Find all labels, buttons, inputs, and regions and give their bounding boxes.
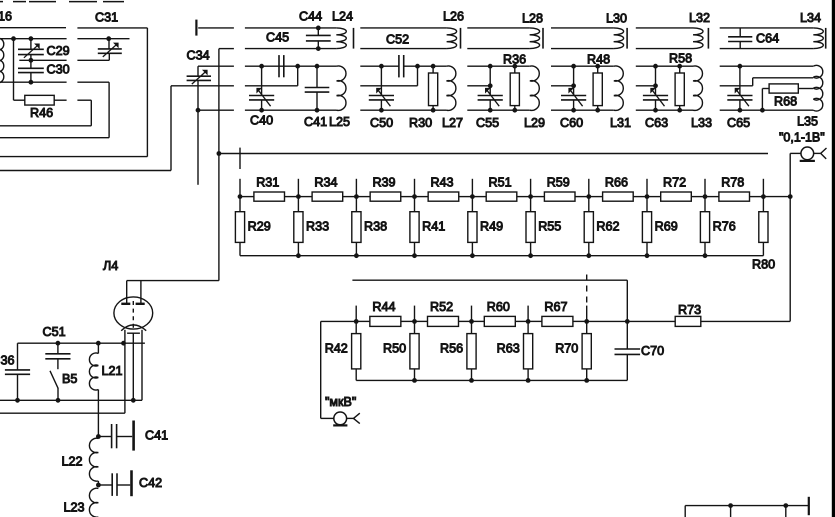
svg-text:R48: R48 (587, 52, 610, 66)
wire - T4 secondary bottom (551, 108, 614, 113)
wire - ladder2 bottom rail (356, 378, 627, 383)
svg-text:R33: R33 (306, 219, 329, 233)
svg-text:L33: L33 (691, 116, 712, 130)
wire - middle wire y60.3 (19, 58, 109, 63)
inductor L28 (522, 11, 543, 48)
wire - T5 primary loop (636, 28, 693, 49)
svg-text:R50: R50 (383, 342, 406, 356)
wire - link from ladder2 wiper line (352, 280, 627, 321)
svg-text:R42: R42 (325, 342, 348, 356)
wire - T1 secondary top y66.2 (198, 64, 337, 69)
resistor R33 (294, 197, 329, 256)
capacitor C29 (variable) (18, 39, 70, 61)
resistor R52 (415, 300, 472, 327)
svg-text:C41: C41 (304, 115, 327, 129)
svg-text:R30: R30 (409, 116, 432, 130)
tube V4 (anode top-cap) (103, 259, 141, 304)
inductor L29 (524, 66, 545, 130)
wire - R46 return loop to left edge (0, 100, 91, 126)
core bar T5 (707, 28, 709, 49)
svg-text:L32: L32 (689, 11, 710, 25)
inductor L23 (64, 488, 99, 517)
switch shaft (dashed) to ladder 2 (586, 275, 588, 306)
resistor R69 (642, 197, 677, 256)
svg-text:C31: C31 (95, 10, 118, 24)
wire - T1 secondary bottom y110.2 (198, 108, 337, 113)
wire - outer loop y27.7 left part (0, 28, 147, 157)
svg-text:R55: R55 (538, 219, 561, 233)
svg-text:L23: L23 (64, 500, 85, 514)
svg-text:В5: В5 (62, 372, 77, 386)
svg-text:R56: R56 (440, 342, 463, 356)
wire - T2 primary loop (360, 28, 446, 49)
svg-text:R46: R46 (30, 106, 53, 120)
resistor R31 (240, 175, 298, 201)
resistor R78 (705, 175, 763, 201)
svg-text:R60: R60 (487, 300, 510, 314)
resistor R68 (762, 84, 813, 110)
resistor R30 (409, 66, 438, 130)
svg-text:L31: L31 (610, 116, 631, 130)
wire - bottom right heater bus (685, 503, 809, 517)
svg-text:R62: R62 (596, 219, 619, 233)
capacitor C30 (18, 60, 70, 82)
border bar (right edge) (832, 0, 835, 517)
inductor L16 (clipped at left edge) (0, 9, 12, 83)
wire - T2 link y85.8 (360, 66, 417, 86)
wire - grid row y343.2 (18, 341, 145, 346)
wire - T6 primary loop (720, 28, 814, 49)
svg-text:36: 36 (1, 354, 15, 368)
svg-text:R41: R41 (422, 219, 445, 233)
core bar T1 (353, 28, 355, 49)
svg-text:R51: R51 (489, 175, 512, 189)
resistor R59 (531, 175, 589, 201)
svg-text:C45: C45 (266, 30, 289, 44)
core bar T2 (460, 28, 462, 49)
wire - T1 primary bottom y48.6 and long drop at x218.9 (217, 49, 337, 281)
resistor R41 (410, 197, 445, 256)
wire - top wire y38.7 of L16 block (0, 36, 130, 41)
resistor R49 (468, 197, 503, 256)
svg-text:L25: L25 (329, 115, 350, 129)
capacitor C45 (266, 30, 289, 77)
core bar T4 (626, 28, 628, 49)
resistor R48 (587, 52, 610, 110)
capacitor C60 (trimmer) (560, 66, 586, 130)
svg-text:R73: R73 (678, 303, 701, 317)
wire - T2 secondary top y66.2 (360, 64, 446, 69)
wire - T2 secondary bottom (360, 108, 446, 113)
svg-text:R36: R36 (503, 52, 526, 66)
svg-text:C55: C55 (476, 116, 499, 130)
wire - cathode row y400.3 (0, 398, 142, 403)
core bar T6 (825, 28, 827, 49)
wire - T6 secondary bottom (720, 108, 814, 113)
capacitor C55 (trimmer) (476, 66, 503, 130)
inductor L24 (332, 9, 353, 48)
svg-text:R31: R31 (256, 175, 279, 189)
wire - loop from T1 link winding to left edge (0, 86, 171, 171)
resistor R63 (497, 321, 533, 380)
inductor L30 (606, 11, 627, 48)
svg-text:C34: C34 (187, 48, 210, 62)
resistor R76 (700, 197, 735, 256)
capacitor C42 (output, lower) (96, 470, 162, 496)
svg-text:C65: C65 (727, 116, 750, 130)
resistor R58 (669, 51, 692, 110)
svg-text:L30: L30 (606, 11, 627, 25)
svg-text:C29: C29 (47, 44, 70, 58)
svg-text:"мкВ": "мкВ" (325, 395, 356, 409)
svg-text:L27: L27 (442, 116, 463, 130)
tube V4 (envelope and electrodes) (114, 297, 153, 333)
svg-text:C50: C50 (370, 116, 393, 130)
wire - T4 secondary top (551, 64, 614, 69)
terminal bar (bottom right) (808, 497, 810, 515)
svg-text:L22: L22 (62, 455, 83, 469)
resistor R80 (752, 197, 775, 272)
svg-text:R76: R76 (713, 219, 736, 233)
capacitor C40 (trimmer) (249, 66, 274, 127)
capacitor C64 (728, 28, 779, 49)
svg-text:R69: R69 (655, 219, 678, 233)
wire - ladder2 contact ticks (354, 306, 589, 324)
resistor R67 (528, 300, 587, 327)
svg-text:C30: C30 (47, 62, 70, 76)
resistor R62 (584, 197, 619, 256)
svg-text:Л4: Л4 (103, 259, 118, 273)
wire - T5 secondary top (636, 64, 693, 69)
svg-text:C64: C64 (756, 31, 779, 45)
inductor L25 (329, 66, 350, 129)
inductor L26 (443, 9, 464, 48)
svg-text:16: 16 (0, 9, 12, 23)
inductor L31 (610, 66, 631, 130)
inductor L21 (89, 343, 122, 436)
svg-text:C63: C63 (645, 116, 668, 130)
connector "uV" jack (321, 395, 360, 426)
svg-text:R38: R38 (364, 219, 387, 233)
capacitor plate terminal (gang section) (195, 20, 197, 36)
capacitor C41 (output, lower) (96, 421, 168, 451)
svg-text:C41: C41 (145, 429, 168, 443)
wire - ladder2 left drop to uV jack (321, 321, 357, 418)
wire - T1 primary top y27.9 (198, 27, 336, 29)
switch wiper arm (input to ladder 1) (239, 148, 241, 169)
capacitor C34 (variable) (187, 48, 212, 184)
capacitor C63 (trimmer) (643, 66, 668, 130)
capacitor C52 (386, 32, 409, 77)
resistor R55 (526, 197, 561, 256)
svg-text:R66: R66 (605, 175, 628, 189)
capacitor C44 (299, 9, 331, 51)
resistor R39 (356, 175, 414, 201)
svg-text:C40: C40 (250, 114, 273, 128)
capacitor C50 (trimmer) (369, 66, 394, 130)
svg-text:R49: R49 (480, 219, 503, 233)
svg-text:R58: R58 (669, 51, 692, 65)
svg-text:R39: R39 (372, 175, 395, 189)
svg-text:C44: C44 (299, 9, 322, 23)
wire - main bus y153.5 (219, 153, 768, 155)
tube V4 pins (125, 330, 142, 413)
resistor R73 (627, 303, 790, 326)
wire - T4 link y85.8 (551, 83, 576, 88)
svg-text:R67: R67 (544, 300, 567, 314)
svg-text:R29: R29 (248, 219, 271, 233)
capacitor C36 (clipped label) (1, 343, 31, 400)
inductor L22 (62, 438, 99, 485)
svg-text:R70: R70 (555, 342, 578, 356)
capacitor C51 (43, 325, 71, 369)
capacitor C41 (in T1 can) (304, 66, 329, 129)
connector "0,1-1B" output jack (779, 130, 827, 161)
svg-text:L21: L21 (102, 364, 123, 378)
resistor R38 (352, 197, 387, 256)
wire - T3 primary loop (467, 28, 529, 49)
wire - grid-return row y413.2 (0, 412, 125, 414)
svg-text:L26: L26 (443, 9, 464, 23)
wire - T5 link y85.8 (636, 83, 658, 88)
svg-text:R72: R72 (663, 175, 686, 189)
resistor R36 (503, 52, 526, 110)
wire - T5 secondary bottom (636, 108, 693, 113)
resistor R56 (440, 321, 476, 380)
wire - anode feed from x218.9 to tube cap (127, 280, 219, 282)
wire - T6 secondary top (720, 64, 814, 69)
svg-text:L34: L34 (800, 11, 821, 25)
wire - riser from jack to R73 line (789, 153, 791, 321)
inductor L32 (689, 11, 710, 49)
inductor L33 (691, 66, 712, 130)
inductor L34 (800, 11, 823, 49)
svg-text:R52: R52 (430, 300, 453, 314)
svg-text:R59: R59 (547, 175, 570, 189)
svg-text:C60: C60 (560, 116, 583, 130)
svg-text:L24: L24 (332, 9, 353, 23)
resistor R34 (298, 175, 356, 201)
wire - T3 link y85.8 (467, 83, 492, 88)
svg-text:R80: R80 (752, 258, 775, 272)
resistor R42 (325, 321, 361, 380)
svg-text:R63: R63 (497, 342, 520, 356)
svg-text:R34: R34 (314, 175, 337, 189)
wire - T3 secondary bottom (467, 108, 530, 113)
svg-text:C51: C51 (43, 325, 66, 339)
resistor R50 (383, 321, 419, 380)
svg-text:R78: R78 (721, 175, 744, 189)
svg-text:R68: R68 (774, 94, 797, 108)
resistor R72 (647, 175, 705, 201)
shield (dashed screen line, top-left) (0, 1, 124, 3)
capacitor C70 (587, 319, 664, 380)
svg-text:R43: R43 (430, 175, 453, 189)
resistor R70 (555, 321, 591, 380)
inductor L35 (797, 65, 823, 128)
svg-text:C52: C52 (386, 32, 409, 46)
capacitor C31 (variable) (95, 10, 122, 60)
resistor R60 (472, 300, 529, 327)
capacitor C65 (trimmer) (727, 66, 753, 130)
resistor R29 (235, 197, 270, 256)
svg-text:R44: R44 (372, 300, 395, 314)
svg-text:L29: L29 (524, 116, 545, 130)
wire - T1 link y85.8 (171, 66, 298, 86)
svg-text:L35: L35 (797, 114, 818, 128)
svg-text:L28: L28 (522, 11, 543, 25)
resistor R44 (356, 300, 414, 327)
svg-text:C70: C70 (641, 344, 664, 358)
core bar T3 (542, 28, 544, 49)
wire - T4 primary loop (551, 28, 614, 49)
resistor R66 (589, 175, 647, 201)
wire - ladder1 top rail with contact ticks (238, 179, 793, 199)
wire - ladder1 bottom rail (240, 253, 763, 258)
switch B5 (50, 371, 77, 401)
wire - T3 secondary top (467, 64, 530, 69)
resistor R46 (14, 39, 92, 120)
svg-text:C42: C42 (139, 476, 162, 490)
wire - bottom wire y82.2 with corner down to left edge (0, 80, 109, 138)
resistor R51 (472, 175, 530, 201)
svg-text:"0,1-1В": "0,1-1В" (779, 130, 825, 144)
inductor L27 (442, 66, 463, 130)
resistor R43 (415, 175, 473, 201)
wire - T6 link with tap jog (720, 78, 814, 86)
